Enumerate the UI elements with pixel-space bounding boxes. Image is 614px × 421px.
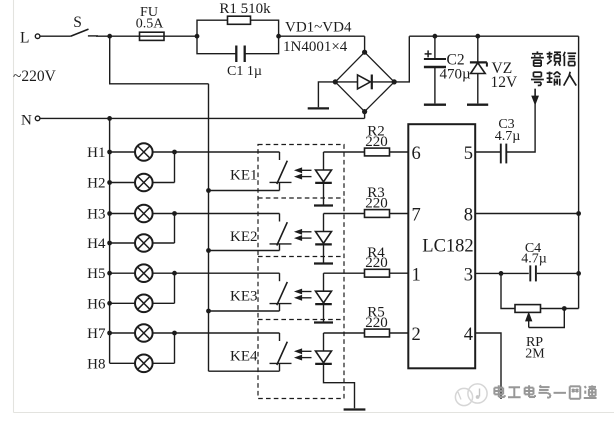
svg-text:6: 6 [412,144,421,164]
wire R2 to IC [390,151,409,153]
ground bar under C2 [424,104,446,106]
zener diode VZ 12V [470,36,518,103]
resistor R1 510k [219,1,271,24]
wire switch to fuse [96,34,140,39]
wire H7 to KE4 [153,331,280,336]
optocoupler arrows KE2 [295,229,312,240]
wire KE4 to L bus [209,370,280,372]
lamp H1 [87,143,152,161]
watermark logo [455,384,487,406]
svg-text:KE4: KE4 [230,349,258,365]
wire LED1 cathode [323,183,325,205]
svg-text:2: 2 [412,325,421,345]
optocoupler arrows KE3 [295,289,312,300]
wire N line [40,116,365,121]
svg-text:KE2: KE2 [230,229,258,245]
wire bridge left to ground [318,82,335,107]
pin 4 [464,325,473,345]
right bus [578,36,580,308]
svg-text:L: L [20,30,29,47]
svg-text:H8: H8 [87,356,105,372]
resistor R3 220 [365,185,390,217]
pin 7 [412,206,421,226]
label VD1~VD4 [285,20,352,36]
svg-text:~220V: ~220V [13,68,57,85]
node bus H3 [107,211,112,216]
lamp H4 [87,234,152,252]
node R1C1 right [276,34,281,39]
node bus H5 [107,271,112,276]
svg-text:2M: 2M [525,347,545,362]
svg-text:3: 3 [464,266,473,286]
node VZ on rail [475,34,480,39]
wire H1 to KE1 [153,150,280,155]
LED KE1 [315,152,332,183]
pin 1 [412,265,421,285]
node R1C1 left [195,34,200,39]
wire C3 to audio input [506,89,535,152]
node C2 on rail [433,34,438,39]
optocoupler arrows KE1 [295,168,312,179]
ground bar under VZ [467,104,488,106]
wire H5 to KE3 [153,271,280,276]
wire RP branch right [541,306,579,311]
svg-text:220: 220 [365,134,388,150]
wire C1 lower branch [197,36,279,54]
wire pin3 [475,271,581,276]
op-amp IC U1 LC182 [408,124,475,368]
wire LED3 anode to R4 [324,272,365,274]
pin 6 [412,144,421,164]
node bus H2 [107,180,112,185]
label ~220V [13,68,57,85]
N lamp bus [109,118,111,363]
wire bridge bottom to N [364,112,366,119]
KE divider KE2/KE3 [258,256,344,258]
relay KE2 label [230,229,258,245]
resistor R2 220 [365,124,390,156]
wire R4 to IC [390,272,409,274]
relay KE3 switch [270,273,292,311]
svg-text:H2: H2 [87,176,105,192]
wire KE2 to L bus [206,248,279,253]
lamp H2 [87,174,152,192]
wire pin4 [475,333,501,399]
svg-text:H3: H3 [87,207,105,223]
svg-text:H4: H4 [87,236,106,252]
resistor R5 220 [365,305,390,337]
LED KE2 [315,214,332,245]
svg-text:H6: H6 [87,296,106,312]
svg-text:5: 5 [464,144,473,164]
svg-text:KE1: KE1 [230,168,258,184]
label 1N4001x4 [283,39,348,55]
bridge rectifier VD1-VD4 [333,50,397,115]
lamp H3 [87,205,152,223]
svg-text:H1: H1 [87,145,105,161]
svg-text:220: 220 [365,315,388,331]
svg-text:VD1~VD4: VD1~VD4 [285,20,352,36]
wire RP branch left [501,273,515,308]
wire pair H3H4 [153,214,175,244]
wire bridge right to rail [394,36,409,82]
node bus H7 [107,331,112,336]
svg-text:220: 220 [365,255,388,271]
wire KE3 to L bus [206,309,279,314]
svg-text:R1 510k: R1 510k [219,1,271,17]
wire LED1 anode to R2 [324,151,365,153]
lamp H5 [87,264,152,282]
wire LED4 anode to R5 [324,332,365,334]
svg-text:KE3: KE3 [230,289,258,305]
wire R3 to IC [390,213,409,215]
ground bar KE1 [314,204,333,206]
ground at bridge [308,107,329,109]
svg-text:1: 1 [412,265,421,285]
potentiometer RP 2M [515,305,545,362]
capacitor C1 1µ [227,46,262,80]
wire LED2 anode to R3 [324,213,365,215]
capacitor C2 470µ [424,36,471,103]
svg-text:LC182: LC182 [422,237,473,257]
relay KE2 switch [270,214,292,251]
KE dashed enclosure [258,145,344,399]
svg-text:470µ: 470µ [440,66,472,82]
resistor R4 220 [365,245,390,277]
wire R5 to IC [390,332,409,334]
ground at KE4 [344,408,366,410]
lamp H8 [87,355,152,373]
L bus vertical [208,84,210,371]
svg-text:12V: 12V [491,74,519,91]
top +12V rail [409,35,578,37]
svg-text:1N4001×4: 1N4001×4 [283,39,348,55]
wire pin8 to bus [475,211,581,216]
capacitor C4 4.7µ [521,241,547,281]
lamp H6 [87,295,152,313]
terminal L [20,30,40,47]
wire node to bridge top [279,36,365,52]
wire pair H7H8 [153,333,175,363]
wire pair H1H2 [153,152,175,183]
svg-text:4: 4 [464,325,473,345]
svg-text:S: S [73,14,82,31]
wire pair H5H6 [153,273,175,303]
svg-text:7: 7 [412,206,421,226]
lamp H7 [87,324,152,342]
svg-text:N: N [21,113,32,129]
svg-text:H7: H7 [87,326,106,342]
watermark text [494,385,596,398]
ground bar KE2 [314,262,333,264]
pin 8 [464,206,473,226]
node bus H4 [107,241,112,246]
svg-text:4.7µ: 4.7µ [495,129,521,144]
pin 3 [464,266,473,286]
wire L drop [110,36,209,84]
ground bar KE3 [314,321,333,323]
KE divider KE3/KE4 [258,319,344,321]
svg-text:C1 1µ: C1 1µ [227,64,262,79]
wire L to switch [40,35,71,37]
wire H3 to KE2 [153,211,280,216]
relay KE4 switch [270,333,292,371]
relay KE1 switch [270,152,292,191]
relay KE1 label [230,168,258,184]
fuse FU 0.5A [136,5,165,40]
pin 2 [412,325,421,345]
wire LED4 cathode [324,364,355,408]
relay KE4 label [230,349,258,365]
relay KE3 label [230,289,258,305]
node bus H6 [107,301,112,306]
KE divider KE1/KE2 [258,197,344,199]
label audio signal input [531,51,576,85]
node bus H1 [107,150,112,155]
wire fuse to node [164,35,197,37]
svg-text:220: 220 [365,195,388,211]
wire LED3 cathode [323,304,325,321]
wire KE1 to L bus [206,188,279,193]
svg-text:8: 8 [464,206,473,226]
optocoupler arrows KE4 [295,349,312,360]
LED KE3 [315,273,332,304]
audio input arrow [532,89,539,105]
capacitor C3 4.7µ [495,117,521,163]
svg-text:0.5A: 0.5A [136,17,165,32]
wire R1 upper branch [197,20,279,36]
wire LED2 cathode [323,244,325,262]
svg-text:4.7µ: 4.7µ [521,251,547,266]
svg-text:H5: H5 [87,266,105,282]
RP wiper [526,309,565,328]
pin 5 [464,144,473,164]
switch S [71,14,98,36]
wire pin5 to C3 [475,151,501,153]
terminal N [21,113,40,129]
LED KE4 [315,333,332,364]
